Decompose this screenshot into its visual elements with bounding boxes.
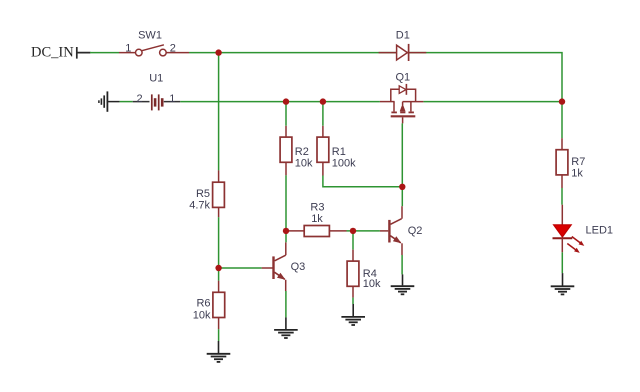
wire R4 column top: [352, 234, 354, 250]
resistor R4: [347, 250, 359, 298]
svg-text:Q1: Q1: [396, 72, 411, 84]
wire battery rail: ground to U1: [120, 101, 133, 103]
wire top rail left (DC_IN to SW1 pin1): [90, 52, 119, 54]
svg-text:4.7k: 4.7k: [189, 200, 210, 212]
wire top rail (SW1 pin2 to right corner and down): [189, 53, 562, 102]
transistor Q3 (NPN): [274, 255, 286, 280]
svg-text:SW1: SW1: [138, 29, 162, 41]
resistor R1: [317, 126, 329, 176]
wire right rail to R7: [561, 102, 563, 139]
wire Q3 emitter stub: [285, 280, 287, 291]
wire R6 to ground: [218, 329, 220, 341]
svg-text:D1: D1: [396, 29, 410, 41]
svg-text:DC_IN: DC_IN: [31, 45, 74, 61]
wire R1 top: [322, 102, 324, 126]
wire LED1 to ground: [561, 252, 563, 273]
wire Q3 emitter to ground: [285, 291, 287, 317]
svg-text:R6: R6: [196, 298, 210, 310]
svg-text:R5: R5: [196, 188, 210, 200]
svg-text:R3: R3: [310, 202, 324, 214]
ground (left of U1, rotated): [99, 91, 120, 111]
ground (below R4): [341, 304, 365, 325]
wire R7 to LED1: [561, 188, 563, 205]
wire Q2 emitter to ground: [401, 255, 403, 274]
wire Q1 gate column down to node: [401, 123, 403, 206]
svg-text:2: 2: [170, 43, 176, 55]
svg-text:1k: 1k: [571, 168, 583, 180]
transistor Q2 (NPN): [389, 219, 401, 244]
junction dot (R3 right / R4): [350, 228, 356, 234]
svg-text:R2: R2: [295, 146, 309, 158]
diode D1: [397, 44, 409, 61]
diode D1 red lead: [379, 52, 427, 54]
ground (below LED1): [551, 273, 575, 294]
LED1 anode lead: [561, 205, 563, 225]
resistor R2: [280, 126, 292, 176]
svg-text:2: 2: [137, 93, 143, 105]
ground (below Q3): [274, 317, 298, 338]
wire R5 bottom to junction: [218, 217, 220, 281]
junction dot (gate node): [399, 184, 405, 190]
junction dot (battery rail / R2): [283, 98, 289, 104]
wire Q3 collector stub: [285, 242, 287, 255]
wire column R5 (top junction down through battery rail): [218, 53, 220, 171]
wire node to Q2 collector stub: [401, 206, 403, 219]
svg-text:1: 1: [125, 43, 131, 55]
junction dot (R3 left / R2 / Q3 collector): [283, 228, 289, 234]
transistor Q1 (P-MOSFET): [380, 84, 424, 124]
wire R2 top: [285, 102, 287, 126]
svg-text:1k: 1k: [311, 213, 323, 225]
wire R3 right to Q2 base: [347, 230, 380, 232]
svg-text:10k: 10k: [363, 278, 381, 290]
junction dot (battery rail / R1): [320, 98, 326, 104]
wire battery rail (Q1 to right rail): [423, 101, 562, 103]
svg-text:100k: 100k: [332, 158, 356, 170]
svg-text:R7: R7: [571, 156, 585, 168]
svg-text:LED1: LED1: [586, 225, 614, 237]
switch SW1: [119, 45, 189, 56]
resistor R3 (horizontal): [288, 226, 347, 237]
svg-text:R1: R1: [332, 146, 346, 158]
wire R1 bottom to gate node: [323, 176, 402, 187]
ground (below R6): [207, 341, 231, 362]
wire Q3 collector up to R3/R2 node: [285, 175, 287, 242]
node DC_IN pin bar: [77, 47, 91, 59]
wire Q2 emitter stub: [401, 243, 403, 255]
resistor R7: [556, 138, 568, 188]
resistor R6: [213, 281, 225, 329]
svg-text:1: 1: [169, 93, 175, 105]
svg-text:10k: 10k: [193, 310, 211, 322]
LED LED1: [553, 225, 585, 253]
battery U1: [133, 94, 181, 110]
resistor R5: [213, 170, 225, 217]
ground (below Q2): [391, 274, 415, 294]
wire battery rail (U1 to Q1): [180, 101, 380, 103]
junction dot (battery rail / right rail): [559, 98, 565, 104]
svg-text:Q2: Q2: [408, 225, 423, 237]
junction dot (R5/R6/Q3 base): [215, 265, 221, 271]
svg-text:Q3: Q3: [291, 261, 306, 273]
junction dot (SW1 out / R5 column): [215, 49, 221, 55]
wire Q3 base row: [219, 267, 262, 269]
svg-text:U1: U1: [149, 73, 163, 85]
wire R4 bottom: [352, 298, 354, 304]
svg-text:10k: 10k: [295, 158, 313, 170]
